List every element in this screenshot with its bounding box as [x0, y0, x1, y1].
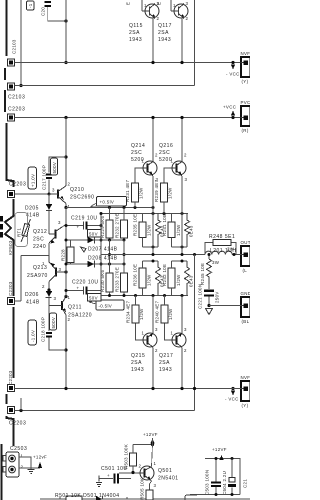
- svg-text:Q217: Q217: [159, 353, 173, 359]
- svg-text:1/2W: 1/2W: [168, 187, 173, 199]
- svg-text:+0.5lV: +0.5lV: [100, 200, 115, 205]
- resistor R232: [115, 208, 128, 241]
- svg-text:3: 3: [52, 188, 55, 193]
- node: [64, 19, 67, 22]
- transistor Q214: [131, 143, 159, 182]
- svg-text:C218 100P: C218 100P: [41, 317, 46, 342]
- connector OUT: [241, 240, 251, 273]
- wire Q117 emitter down: [181, 19, 183, 63]
- svg-text:C503 100N: C503 100N: [205, 470, 210, 495]
- bottom-left board edge: [1, 444, 3, 500]
- bias line upper2: [101, 213, 188, 215]
- svg-text:2SC: 2SC: [159, 150, 170, 156]
- capacitor C504: [222, 459, 236, 496]
- svg-text:1943: 1943: [159, 367, 172, 373]
- svg-text:5200: 5200: [131, 157, 144, 163]
- svg-text:0E43: 0E43: [189, 225, 194, 237]
- svg-text:C221 100N: C221 100N: [198, 284, 203, 309]
- wire R501 row: [40, 498, 250, 500]
- thermistor RT1: [15, 213, 31, 247]
- svg-text:2: 2: [155, 153, 158, 158]
- connector pin 4: [8, 191, 15, 198]
- connector NVF bottom: [241, 375, 251, 408]
- wire from cap: [48, 7, 66, 21]
- svg-text:1: 1: [144, 3, 147, 8]
- svg-text:D206: D206: [25, 292, 39, 298]
- connector pin 3: [8, 114, 15, 121]
- svg-text:R505 10K: R505 10K: [140, 478, 145, 500]
- svg-text:2: 2: [155, 348, 158, 353]
- svg-text:2: 2: [21, 465, 24, 470]
- svg-text:2: 2: [139, 464, 142, 469]
- svg-text:GND: GND: [241, 291, 251, 296]
- +12VF arrow mid: [143, 432, 158, 445]
- svg-text:3: 3: [185, 177, 188, 182]
- svg-text:0E43: 0E43: [189, 275, 194, 287]
- bias line lower: [101, 295, 188, 297]
- svg-text:R234 4E7: R234 4E7: [126, 300, 131, 323]
- transistor Q115: [142, 0, 160, 21]
- svg-text:50V: 50V: [89, 296, 98, 301]
- svg-text:R230 5K6: R230 5K6: [100, 269, 105, 292]
- capacitor C220: [65, 280, 102, 302]
- resistor R503: [124, 444, 137, 473]
- svg-text:OUT: OUT: [241, 240, 251, 245]
- svg-text:(L: (L: [243, 268, 248, 273]
- trimmer arrow: [81, 247, 87, 252]
- callout -0.5IV: [89, 300, 124, 310]
- svg-text:E: E: [126, 2, 131, 5]
- svg-text:1: 1: [68, 295, 71, 300]
- capacitor C207: [45, 1, 52, 3]
- svg-text:NVF: NVF: [241, 51, 251, 56]
- transistor Q211: [49, 295, 92, 322]
- svg-text:2SA1220: 2SA1220: [68, 313, 92, 319]
- bus -VCC y62: [15, 62, 241, 64]
- wire right vertical top: [194, 0, 196, 86]
- svg-text:Q117: Q117: [158, 23, 172, 29]
- wire Q211 emitter down: [65, 315, 67, 389]
- svg-text:Q115: Q115: [129, 23, 143, 29]
- Q501 collector up: [152, 438, 153, 467]
- svg-text:2240: 2240: [33, 244, 46, 250]
- resistor R245 zigzag: [200, 253, 220, 285]
- svg-text:3: 3: [186, 1, 189, 6]
- svg-text:414B: 414B: [26, 300, 40, 306]
- svg-text:C2203: C2203: [8, 107, 25, 113]
- node: [64, 155, 67, 158]
- svg-text:50V: 50V: [89, 232, 98, 237]
- svg-text:1/2W: 1/2W: [147, 274, 152, 286]
- svg-text:C2203: C2203: [9, 182, 26, 188]
- svg-text:C504 2.2U: C504 2.2U: [222, 471, 227, 495]
- svg-text:2: 2: [42, 284, 45, 289]
- feedback vertical: [194, 255, 196, 411]
- svg-text:PVC: PVC: [241, 100, 251, 105]
- diode D208 line: [65, 256, 126, 268]
- svg-text:2SA: 2SA: [158, 30, 169, 36]
- wire Q115 emitter down: [152, 19, 154, 63]
- svg-text:250V: 250V: [215, 291, 220, 303]
- svg-text:3: 3: [54, 296, 57, 301]
- Q216 emitter down: [181, 176, 183, 255]
- svg-text:1943: 1943: [131, 367, 144, 373]
- svg-text:1: 1: [173, 3, 176, 8]
- svg-text:2: 2: [186, 16, 189, 21]
- wires from +VCC bus down to drivers: [152, 118, 154, 162]
- callout +0.5IV: [91, 197, 127, 207]
- capacitor C218: [41, 306, 67, 351]
- C2503 pin1 wire to ground: [19, 457, 31, 469]
- svg-text:1943: 1943: [129, 37, 142, 43]
- wire Q501 top: [133, 444, 153, 446]
- svg-text:- VCC: - VCC: [226, 72, 240, 77]
- svg-text:R229 5K6: R229 5K6: [100, 215, 105, 238]
- svg-text:5200: 5200: [159, 157, 172, 163]
- svg-text:+12vF: +12vF: [33, 455, 47, 460]
- svg-text:C217 100P: C217 100P: [42, 165, 47, 190]
- svg-text:C2203: C2203: [9, 421, 26, 427]
- svg-text:KF503: KF503: [8, 240, 13, 255]
- svg-text:3W: 3W: [212, 260, 220, 265]
- transistor Q213: [27, 256, 68, 291]
- svg-text:2N5401: 2N5401: [158, 476, 179, 482]
- svg-text:R236 10E: R236 10E: [133, 264, 138, 286]
- svg-text:2SC: 2SC: [131, 150, 142, 156]
- svg-text:1/2W: 1/2W: [176, 224, 181, 236]
- svg-text:C219 10U: C219 10U: [71, 216, 98, 222]
- resistor R228: [61, 240, 75, 264]
- svg-text:(Y): (Y): [242, 79, 249, 84]
- resistor R229: [100, 208, 113, 241]
- connector pin 2: [8, 83, 15, 90]
- svg-text:Q210: Q210: [70, 187, 84, 193]
- bias vertical links: [110, 240, 125, 264]
- svg-text:2: 2: [184, 153, 187, 158]
- svg-text:D208 414B: D208 414B: [88, 256, 118, 262]
- callout -1.0V: [28, 320, 37, 345]
- svg-text:R239 4E7: R239 4E7: [154, 179, 159, 202]
- capacitor C219: [65, 216, 103, 238]
- svg-text:(Y): (Y): [242, 403, 249, 408]
- connector pin 1: [8, 59, 15, 66]
- svg-text:E: E: [157, 2, 162, 5]
- wire +12VF right: [205, 447, 240, 495]
- svg-text:2SA: 2SA: [129, 30, 140, 36]
- transistor Q501: [138, 461, 179, 488]
- diode D205: [25, 194, 52, 234]
- svg-text:1/2W: 1/2W: [168, 308, 173, 320]
- capacitor C503: [205, 457, 222, 495]
- resistor R248 parallel: [205, 234, 236, 255]
- transistor Q215: [131, 327, 158, 373]
- svg-text:2W: 2W: [227, 247, 235, 252]
- connector C2503 pin1: [9, 455, 16, 462]
- svg-text:Q211: Q211: [68, 305, 82, 311]
- connector C2503 shell: [6, 452, 19, 477]
- KF503 pads: [0, 216, 3, 222]
- resistor R239: [154, 179, 173, 213]
- connector C2503 pin2: [9, 466, 16, 473]
- resistor R501: [66, 496, 82, 500]
- bus lower2: [15, 410, 195, 412]
- bias ladder vertical: [100, 214, 102, 296]
- ground for C501: [96, 476, 102, 487]
- board edge trace upper: [5, 0, 14, 187]
- joining seg lower right pair: [172, 260, 188, 262]
- svg-text:+12VF: +12VF: [143, 432, 158, 437]
- svg-text:1/2W: 1/2W: [147, 224, 152, 236]
- capacitor C221: [198, 284, 220, 309]
- node: [64, 61, 67, 64]
- capacitor C501: [99, 466, 131, 484]
- svg-text:1/2W: 1/2W: [176, 274, 181, 286]
- joining seg upper right pair: [172, 246, 188, 248]
- svg-text:3: 3: [59, 267, 62, 272]
- resistor R241: [162, 214, 175, 248]
- svg-text:1: 1: [154, 461, 157, 466]
- transistor Q216: [159, 143, 188, 182]
- wire x66 mid: [65, 118, 67, 187]
- Q217 emitter up: [181, 296, 183, 334]
- Q215 base to R234: [136, 323, 141, 340]
- svg-text:414B: 414B: [26, 213, 40, 219]
- svg-text:1: 1: [21, 454, 24, 459]
- svg-text:(BL: (BL: [242, 319, 250, 324]
- ground small: [28, 470, 35, 474]
- svg-text:RT1: RT1: [17, 228, 22, 237]
- svg-text:+VCC: +VCC: [223, 105, 236, 110]
- svg-text:R233 270E: R233 270E: [115, 267, 120, 292]
- svg-text:+: +: [107, 473, 110, 478]
- ground under C221: [207, 304, 210, 307]
- callout 500V lower: [50, 313, 57, 330]
- resistor R505: [140, 478, 154, 500]
- svg-text:C21: C21: [243, 479, 248, 488]
- svg-text:- VCC: - VCC: [225, 397, 239, 402]
- svg-text:R248 5E1: R248 5E1: [209, 234, 235, 240]
- svg-text:2: 2: [184, 348, 187, 353]
- callout 500V: [51, 158, 58, 175]
- wire Q212 emitter down: [15, 243, 50, 301]
- Q217 base to R240: [165, 323, 170, 340]
- rounded box bottom: [185, 495, 197, 500]
- diode D207 line: [65, 237, 126, 253]
- svg-text:1943: 1943: [158, 37, 171, 43]
- diode D206: [25, 288, 52, 305]
- svg-text:-1.0V: -1.0V: [31, 330, 36, 342]
- svg-text:3: 3: [58, 220, 61, 225]
- board edge trace lower: [7, 394, 14, 446]
- resistor R238 zigzag: [147, 261, 165, 296]
- bus -VCC bottom: [15, 388, 241, 390]
- resistor R237 zigzag: [147, 214, 165, 248]
- resistor R243 zigzag: [176, 214, 194, 248]
- svg-text:500V: 500V: [51, 317, 56, 329]
- transistor Q217: [159, 327, 187, 373]
- svg-text:500V: 500V: [52, 162, 57, 174]
- svg-text:Q215: Q215: [131, 353, 145, 359]
- resistor R234: [126, 296, 145, 324]
- svg-text:2: 2: [68, 182, 71, 187]
- wire x66 long mid: [65, 208, 67, 297]
- inductor L201: [205, 251, 232, 254]
- wire input vertical: [20, 0, 22, 86]
- wire C217 top: [49, 157, 66, 173]
- Q215 collector down: [152, 348, 154, 389]
- svg-text:C20: C20: [41, 7, 46, 16]
- callout +1.0V: [28, 167, 37, 189]
- svg-text:2SA: 2SA: [159, 360, 170, 366]
- footer wire ticks: [60, 497, 127, 499]
- svg-text:1: 1: [142, 331, 145, 336]
- svg-text:2SC: 2SC: [33, 237, 44, 243]
- resistor R235: [133, 214, 147, 248]
- svg-text:1/2W: 1/2W: [139, 308, 144, 320]
- svg-text:Q501: Q501: [158, 468, 172, 474]
- connector GND: [241, 291, 252, 324]
- transistor Q210: [49, 182, 94, 210]
- svg-text:C2103: C2103: [8, 95, 25, 101]
- svg-text:C2203: C2203: [8, 370, 13, 385]
- svg-text:2: 2: [157, 16, 160, 21]
- bus mid y85: [15, 85, 195, 87]
- svg-text:C2203: C2203: [8, 281, 13, 296]
- svg-text:Q213: Q213: [33, 265, 47, 271]
- svg-text:C2503: C2503: [10, 446, 27, 452]
- bottom rail right: [190, 494, 240, 496]
- +VCC arrow: [223, 105, 236, 120]
- svg-text:R240 4E7: R240 4E7: [155, 300, 160, 323]
- svg-text:R235 10E: R235 10E: [133, 214, 138, 236]
- -VCC arrow top: [226, 61, 240, 77]
- svg-text:3: 3: [155, 327, 158, 332]
- capacitor C217: [46, 174, 52, 176]
- svg-text:R231 4E7: R231 4E7: [125, 179, 130, 202]
- connector NVF top: [241, 51, 251, 84]
- svg-text:+: +: [77, 286, 80, 291]
- input wire to Q210 base: [15, 193, 50, 195]
- connector pin 7: [8, 407, 15, 414]
- -VCC arrow bottom: [225, 387, 239, 402]
- svg-text:R501 10K D501 1N4004: R501 10K D501 1N4004: [55, 493, 120, 499]
- svg-text:1/2W: 1/2W: [139, 187, 144, 199]
- svg-text:R228: R228: [61, 249, 66, 261]
- diode D501: [96, 496, 102, 500]
- svg-text:-0.5lV: -0.5lV: [99, 304, 113, 309]
- svg-text:+12VF: +12VF: [212, 447, 227, 452]
- svg-text:2SA: 2SA: [131, 360, 142, 366]
- Q214 emitter down: [152, 176, 154, 255]
- Q214 base to R231: [135, 168, 141, 183]
- Q217 collector down: [181, 348, 183, 389]
- svg-text:R241 10E: R241 10E: [162, 214, 167, 236]
- svg-text:R245 10E: R245 10E: [200, 263, 205, 285]
- resistor R230: [100, 264, 113, 296]
- svg-text:D205: D205: [25, 206, 39, 212]
- connector pin 6: [8, 385, 15, 392]
- wire to GND connector: [209, 305, 241, 307]
- connector PVC: [241, 100, 251, 133]
- connector pin 5: [8, 298, 15, 305]
- svg-text:-1: -1: [28, 3, 33, 8]
- transistor Q212: [33, 220, 66, 250]
- output rail: [101, 254, 241, 256]
- svg-text:1: 1: [68, 204, 71, 209]
- resistor R236: [133, 261, 147, 296]
- svg-text:R242 10E: R242 10E: [162, 264, 167, 286]
- svg-text:1: 1: [171, 331, 174, 336]
- resistor R242: [162, 261, 175, 296]
- svg-text:R232 270E: R232 270E: [115, 213, 120, 238]
- Q215 emitter up: [152, 296, 154, 334]
- node dot: [19, 84, 22, 87]
- bias line upper: [66, 207, 153, 209]
- svg-text:Q214: Q214: [131, 143, 145, 149]
- C2503 pin2 wire to +12VF: [19, 455, 47, 469]
- svg-text:NVF: NVF: [241, 375, 251, 380]
- svg-text:(R): (R): [242, 128, 249, 133]
- callout box top: [27, 1, 35, 10]
- svg-text:C2103: C2103: [12, 39, 17, 54]
- svg-text:R503 100K: R503 100K: [124, 444, 129, 469]
- svg-text:2SC2690: 2SC2690: [70, 195, 94, 201]
- Q501 base wire: [119, 472, 138, 474]
- svg-text:3: 3: [154, 483, 157, 488]
- transistor Q117: [171, 0, 189, 21]
- resistor R244 zigzag: [176, 261, 194, 296]
- wire main left vertical: [65, 0, 67, 63]
- joining seg lower left pair: [143, 260, 159, 262]
- resistor R240: [155, 296, 174, 324]
- svg-text:D207 414B: D207 414B: [88, 247, 118, 253]
- svg-text:2SA970: 2SA970: [27, 273, 48, 279]
- board edge trace mid: [5, 199, 14, 378]
- resistor R233: [115, 264, 128, 296]
- Q216 base to R239: [164, 168, 170, 183]
- svg-text:Q216: Q216: [159, 143, 173, 149]
- svg-text:3: 3: [184, 327, 187, 332]
- svg-text:Q212: Q212: [33, 229, 47, 235]
- svg-text:+: +: [77, 225, 80, 230]
- svg-text:+1.0V: +1.0V: [31, 174, 36, 187]
- joining seg upper left pair: [143, 246, 159, 248]
- node: [64, 116, 67, 119]
- bus +VCC y117: [15, 117, 241, 119]
- resistor R231: [125, 179, 144, 207]
